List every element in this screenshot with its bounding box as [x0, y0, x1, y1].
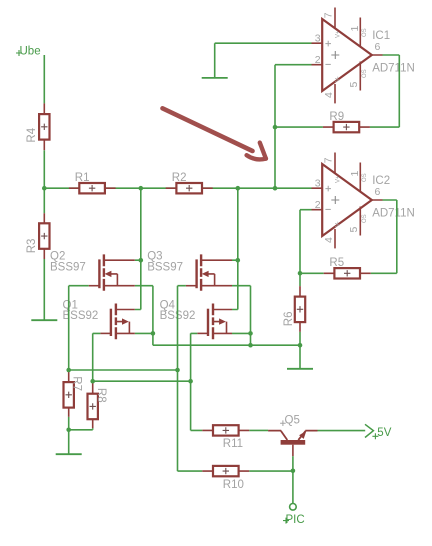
svg-text:R3: R3 — [26, 239, 38, 254]
junction row/Q2 drain — [139, 186, 144, 191]
wire drain vertical x140.8 — [135, 188, 141, 309]
resistor R3 — [26, 213, 50, 259]
junction R8 top — [90, 379, 95, 384]
transistor Q1 BSS92 — [63, 299, 135, 339]
wire R8 bottom to R7 net — [69, 428, 93, 430]
wire ground below R6 — [299, 345, 301, 369]
wire R9 row — [275, 55, 399, 127]
junction row/IC1 pin2 — [273, 186, 278, 191]
wire drain vertical x237.8 — [232, 188, 238, 309]
resistor R8 — [88, 381, 108, 428]
op-amp IC2 — [312, 153, 415, 249]
resistor R7 — [64, 370, 83, 417]
resistor R6 — [283, 286, 305, 332]
resistor R11 — [202, 425, 249, 450]
svg-text:R9: R9 — [329, 111, 344, 123]
transistor Q5 — [268, 414, 317, 456]
wire IC2 pin2 net — [300, 210, 312, 274]
svg-text:3: 3 — [315, 33, 321, 45]
wire sources vertical x152.9 — [135, 286, 153, 346]
svg-text:OS: OS — [362, 69, 368, 78]
resistor R1 — [69, 172, 116, 193]
wire main row y=188 — [44, 187, 311, 189]
svg-text:5: 5 — [348, 82, 360, 88]
transistor Q3 BSS97 — [147, 251, 232, 291]
svg-text:V+: V+ — [336, 30, 342, 38]
wire Q5 base down — [292, 456, 294, 503]
svg-text:2: 2 — [315, 199, 321, 211]
svg-text:OS: OS — [362, 173, 368, 182]
junction R5/R6 — [298, 271, 303, 276]
wire Q3/Q4 source vertical x250.5 — [232, 286, 251, 346]
junction Q3 drain — [236, 258, 241, 263]
wire row370 — [69, 369, 178, 371]
svg-text:7: 7 — [322, 12, 334, 18]
junction R4/R3/row — [42, 186, 47, 191]
svg-text:4: 4 — [323, 92, 335, 98]
svg-text:R4: R4 — [26, 127, 38, 142]
ground below R6 — [287, 368, 313, 370]
supply +5V — [365, 424, 392, 439]
svg-text:7: 7 — [322, 157, 334, 163]
ground near IC1 — [202, 77, 228, 79]
junction Q5 base/R10 — [291, 469, 296, 474]
svg-text:V-: V- — [336, 221, 342, 227]
junction R7 top — [66, 368, 71, 373]
svg-text:1: 1 — [349, 171, 361, 177]
svg-text:OS: OS — [362, 214, 368, 223]
wire R3 to ground — [43, 259, 45, 320]
wire row381 — [93, 380, 191, 382]
wire R7 bottom — [68, 417, 70, 454]
wire Q2 gate net down to R7 — [69, 286, 89, 370]
svg-text:R10: R10 — [223, 479, 244, 491]
junction Q4 gate/R11 — [188, 379, 193, 384]
junction R9 row — [273, 125, 278, 130]
svg-text:3: 3 — [315, 178, 321, 190]
wire R5 row — [300, 200, 397, 273]
wire Q3 gate vertical x177.5 — [178, 286, 186, 471]
junction Q2 drain — [139, 258, 144, 263]
svg-text:OS: OS — [362, 28, 368, 37]
svg-text:R2: R2 — [172, 172, 187, 184]
wire R4 to row — [43, 150, 45, 188]
svg-text:Ube: Ube — [20, 46, 41, 58]
wire R10 row — [178, 470, 203, 472]
junction source row — [248, 343, 253, 348]
wire R11 to Q5 collector — [249, 429, 268, 431]
wire R6 top — [299, 273, 301, 286]
svg-text:R5: R5 — [329, 257, 344, 269]
ground bottom left — [56, 453, 82, 455]
svg-text:1: 1 — [349, 26, 361, 32]
svg-text:2: 2 — [315, 54, 321, 66]
annotation arrow — [163, 108, 266, 159]
svg-text:5V: 5V — [377, 427, 391, 439]
junction Q4 source — [248, 331, 253, 336]
wire Q1 gate vertical x92.7 — [93, 333, 101, 381]
transistor Q4 BSS92 — [160, 299, 232, 339]
svg-text:4: 4 — [323, 237, 335, 243]
svg-text:AD711N: AD711N — [372, 62, 415, 74]
wire R3 top — [43, 188, 45, 213]
svg-text:6: 6 — [375, 41, 381, 53]
junction R6 bottom — [298, 343, 303, 348]
svg-text:IC2: IC2 — [372, 175, 390, 187]
svg-text:6: 6 — [375, 186, 381, 198]
connector PIC — [283, 504, 305, 527]
svg-text:AD711N: AD711N — [372, 207, 415, 219]
wire IC1 pin2 net — [275, 65, 312, 189]
wire row345 — [153, 344, 300, 346]
wire R10 to base junction — [249, 470, 293, 472]
wire R6 bottom to row345 — [299, 332, 301, 345]
wire Q4 gate vertical x190.6 — [191, 333, 203, 430]
resistor R2 — [166, 172, 213, 193]
svg-text:R6: R6 — [283, 311, 295, 326]
svg-text:5: 5 — [348, 227, 360, 233]
svg-text:V-: V- — [336, 76, 342, 82]
svg-text:IC1: IC1 — [372, 30, 390, 42]
junction R7/R8 bottom — [66, 428, 71, 433]
wire IC1 pin3 to ground — [215, 43, 312, 78]
resistor R5 — [324, 257, 371, 279]
op-amp IC1 — [312, 8, 415, 104]
svg-text:R8: R8 — [95, 388, 107, 403]
svg-text:BSS97: BSS97 — [147, 261, 183, 273]
ground below R3 — [31, 319, 57, 321]
junction Q1 source — [151, 331, 156, 336]
resistor R10 — [202, 466, 249, 491]
svg-text:R1: R1 — [75, 172, 90, 184]
resistor R4 — [26, 103, 50, 150]
svg-text:BSS97: BSS97 — [50, 261, 86, 273]
junction Q3 gate/R10 — [175, 368, 180, 373]
svg-text:V+: V+ — [336, 175, 342, 183]
wire Q5 emitter to 5V — [318, 430, 366, 432]
svg-text:R11: R11 — [223, 438, 243, 450]
svg-text:PIC: PIC — [286, 514, 305, 526]
svg-text:R7: R7 — [71, 376, 83, 391]
junction row/Q3 drain — [236, 186, 241, 191]
resistor R9 — [323, 111, 370, 132]
transistor Q2 BSS97 — [50, 251, 135, 291]
wire Ube vertical — [43, 55, 45, 103]
node Ube label — [16, 46, 41, 58]
svg-text:Q5: Q5 — [285, 414, 300, 426]
svg-text:BSS92: BSS92 — [63, 310, 99, 322]
